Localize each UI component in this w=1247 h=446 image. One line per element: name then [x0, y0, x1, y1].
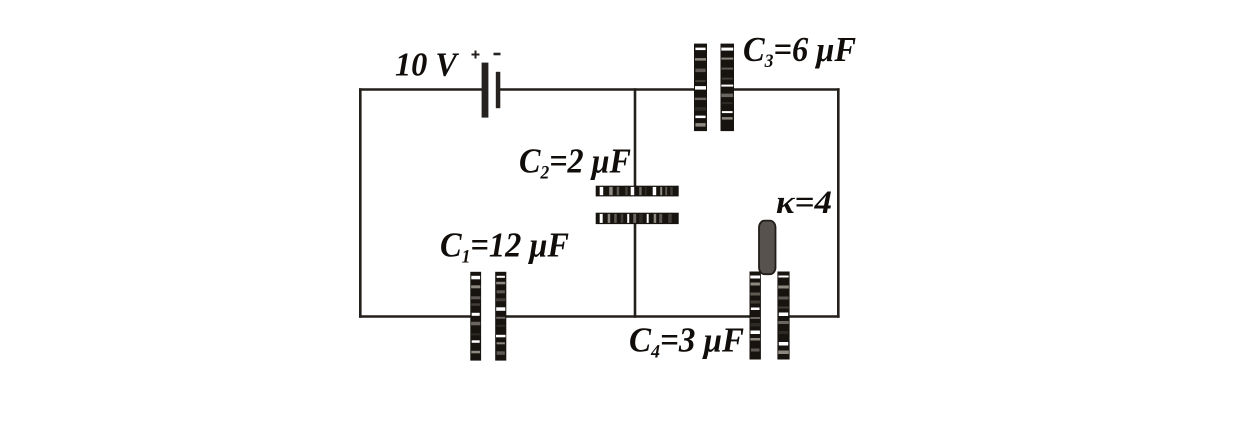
- wire bottom-middle segment (C1 to C4): [506, 315, 751, 318]
- capacitor C1 left plate: [470, 272, 481, 361]
- wire bottom-right segment: [789, 315, 840, 318]
- battery minus sign: [494, 53, 501, 56]
- wire top-right segment: [734, 88, 840, 91]
- capacitor C2 bottom plate: [596, 213, 679, 224]
- capacitor C3 right plate: [721, 44, 735, 132]
- svg-text:κ=4: κ=4: [776, 185, 832, 221]
- battery V1 right plate (short): [496, 72, 501, 108]
- capacitor C4 right plate: [777, 272, 789, 360]
- wire bottom-left segment: [359, 315, 471, 318]
- wire top-middle segment (battery to C3): [500, 88, 695, 91]
- svg-text:C2=2 μF: C2=2 μF: [519, 142, 631, 184]
- wire left edge: [359, 88, 362, 318]
- wire top-left segment: [359, 88, 482, 91]
- dielectric slab kappa=4: [759, 221, 776, 275]
- svg-text:10 V: 10 V: [395, 47, 459, 84]
- svg-text:C4=3 μF: C4=3 μF: [629, 321, 744, 363]
- battery V1 left plate (long): [482, 63, 489, 118]
- battery plus sign: [472, 51, 480, 59]
- wire right edge: [837, 88, 840, 318]
- capacitor C2 top plate: [596, 186, 679, 197]
- wire middle vertical lower (C2 to bottom): [634, 224, 637, 318]
- svg-text:C3=6 μF: C3=6 μF: [743, 30, 856, 72]
- capacitor C1 right plate: [495, 272, 506, 361]
- capacitor C3 left plate: [694, 44, 707, 132]
- wire middle vertical upper (node to C2): [634, 88, 637, 186]
- capacitor C4 left plate: [750, 272, 761, 360]
- svg-text:C1=12 μF: C1=12 μF: [440, 226, 569, 268]
